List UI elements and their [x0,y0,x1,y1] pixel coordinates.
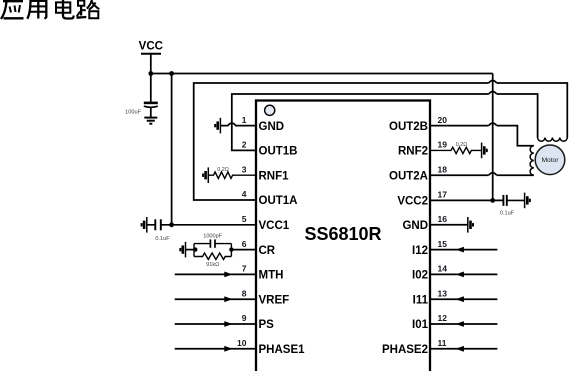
hop of OUT1B route over VCC rail [489,92,497,95]
svg-text:1: 1 [242,115,247,125]
ground at pin 1 [215,118,220,134]
svg-text:7: 7 [242,264,247,274]
svg-text:OUT1B: OUT1B [259,146,298,158]
svg-text:17: 17 [438,190,448,200]
capacitor C3 1000pF [203,234,223,248]
resistor R1 0.2ohm at pin 3 [208,167,256,178]
wire pin6 ground to RC [186,249,196,251]
node junction branch / pin5 wire [169,222,174,227]
wire C1 to ground [150,107,152,117]
svg-text:VCC1: VCC1 [259,220,290,232]
inductor L2 motor winding left [530,146,534,176]
wire OUT2B pin20 to motor coil with hop over VCC rail [430,126,534,146]
svg-text:18: 18 [438,164,448,174]
svg-text:100uF: 100uF [125,109,141,115]
wire input arrow pin 12 [430,321,497,327]
wire VCC stem down to C1 [150,54,152,102]
power label VCC [139,41,163,54]
node right RC junction [229,247,233,251]
wire VCC rail horizontal [151,73,493,75]
svg-text:VREF: VREF [259,294,290,306]
wire input arrow pin 7 [175,272,256,278]
svg-text:PS: PS [259,319,275,331]
svg-text:10: 10 [237,338,247,348]
路 [78,1,84,6]
wire VCC1 branch vertical [171,74,173,225]
IC pin-1 marker circle [265,105,275,115]
wire input arrow pin 14 [430,272,497,278]
svg-text:I11: I11 [413,294,429,306]
svg-text:19: 19 [438,140,448,150]
svg-text:2: 2 [242,140,247,150]
svg-text:PHASE1: PHASE1 [259,344,306,356]
IC U1 SS6810R body [256,101,430,371]
svg-text:4: 4 [242,189,247,199]
svg-text:VCC: VCC [139,41,163,53]
hop of OUT1A route over VCC rail [489,81,497,84]
node junction VCC rail / pin17 [490,198,495,203]
电 [62,0,64,13]
svg-text:91kΩ: 91kΩ [206,262,219,268]
RC parallel loop at pin 6 [194,244,231,257]
svg-text:Motor: Motor [542,157,560,164]
svg-text:16: 16 [438,214,448,224]
svg-text:OUT2B: OUT2B [389,121,428,133]
wire VCC2 pin17 to cap [430,199,503,201]
svg-text:0.2Ω: 0.2Ω [217,167,229,173]
svg-text:I01: I01 [412,319,429,331]
svg-text:14: 14 [438,264,448,274]
svg-text:VCC2: VCC2 [397,195,428,207]
svg-text:0.2Ω: 0.2Ω [456,142,468,148]
resistor R2 91k [194,253,231,268]
wire input arrow pin 10 [175,346,256,352]
svg-text:MTH: MTH [259,270,284,282]
wire RC to pin 6 [231,249,256,251]
svg-text:GND: GND [402,220,428,232]
svg-text:8: 8 [242,288,247,298]
svg-text:11: 11 [438,338,447,348]
svg-text:12: 12 [438,313,448,323]
node left RC junction [193,247,197,251]
svg-text:6: 6 [242,239,247,249]
用 [27,0,30,19]
wire input arrow pin 15 [430,247,497,253]
wire pin16 GND to ground [430,224,468,226]
ground at pin 19 [482,143,487,159]
resistor R3 0.2ohm at pin 19 [430,142,482,153]
svg-text:SS6810R: SS6810R [304,224,381,244]
wire input arrow pin 11 [430,346,497,352]
svg-text:1000pF: 1000pF [203,234,223,240]
ground at pin 16 [468,217,473,233]
wire OUT1A route: pin4 up and over to motor coil right leg [194,83,568,200]
wire input arrow pin 13 [430,296,497,302]
ground below C1 [144,118,157,124]
capacitor C1 100uF [125,103,158,116]
svg-text:3: 3 [242,164,247,174]
node junction rail / VCC1 branch [169,71,174,76]
svg-text:20: 20 [438,115,448,125]
ground at pin 3 [203,167,208,183]
svg-text:RNF2: RNF2 [398,146,428,158]
wire OUT2A pin18 to motor coil bottom with hop over VCC rail [430,174,534,176]
hop of pin18 wire over VCC rail [489,173,497,176]
ground at pin 5 decoupling [142,217,147,233]
VCC rail vertical to VCC2 [492,74,494,201]
ground at pin 17 cap [525,193,530,209]
svg-text:9: 9 [242,313,247,323]
svg-text:GND: GND [259,121,285,133]
wire input arrow pin 9 [175,321,256,327]
svg-text:15: 15 [438,239,448,249]
svg-text:OUT2A: OUT2A [389,170,428,182]
svg-text:PHASE2: PHASE2 [382,344,428,356]
svg-text:0.1uF: 0.1uF [155,236,170,242]
title 应用电路 [1,0,99,19]
svg-text:0.1uF: 0.1uF [500,210,515,216]
capacitor C4 0.1uF at pin 17 [500,195,525,217]
motor M1 body [535,145,565,175]
svg-text:CR: CR [259,245,276,257]
node junction VCC stem / rail [148,71,153,76]
ground at pin 6 [180,242,185,258]
svg-text:5: 5 [242,214,247,224]
capacitor C2 0.1uF at pin 5 [147,219,256,242]
svg-text:OUT1A: OUT1A [259,195,298,207]
inductor L1 motor winding top [538,138,568,142]
wire OUT1B route: pin2 up and over to motor coil left leg [232,94,538,150]
svg-text:I12: I12 [412,245,428,257]
svg-text:13: 13 [438,288,448,298]
svg-text:I02: I02 [412,270,428,282]
pin 1 GND wire with hop over OUT1B riser [220,123,256,126]
wire input arrow pin 8 [175,296,256,302]
hop of pin20 wire over VCC rail [489,123,497,126]
svg-text:RNF1: RNF1 [259,170,290,182]
